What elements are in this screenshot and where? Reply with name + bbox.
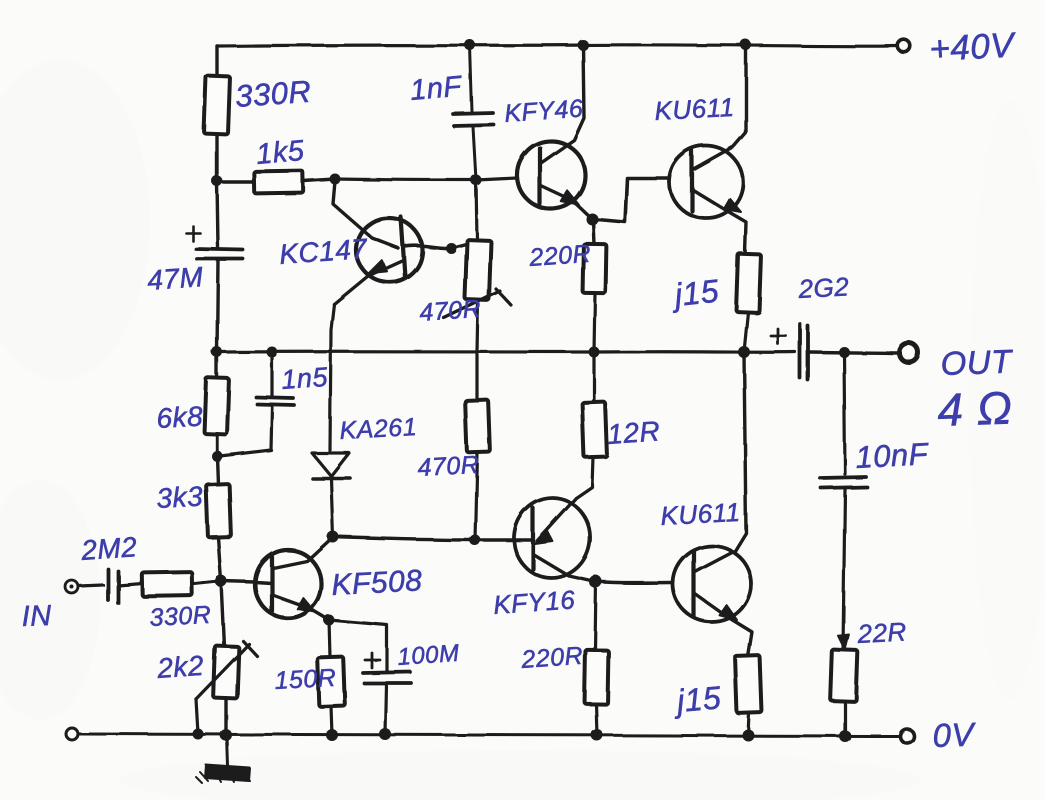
terminal 0V left (66, 728, 78, 740)
resistor 330R (input, horizontal) (142, 572, 192, 597)
wire: 470R trimmer bottom through mid rail to lower 470R (477, 300, 478, 401)
svg-text:10nF: 10nF (855, 436, 931, 475)
node: 150R on 0V rail (326, 729, 338, 741)
wire: 1nF top lead from +40V rail (470, 45, 472, 112)
svg-text:2k2: 2k2 (155, 650, 205, 684)
label 220R (upper) (527, 240, 592, 272)
label j15 (lower) (671, 679, 722, 719)
svg-text:100M: 100M (397, 640, 461, 671)
wire: node E to 470R bottom node to KFY16 base (333, 537, 533, 540)
wire: 220R lower to 0V rail (596, 704, 597, 735)
wire: y180 node down to 470R trimmer (476, 180, 477, 240)
wire: 6k8 to node C (215, 434, 218, 456)
transistor KF508 body (252, 547, 324, 620)
wire: 12R to KFY16 emitter (576, 457, 593, 498)
transistor KC147 body (353, 215, 425, 286)
transistor KF508 collector to node E (273, 537, 333, 568)
svg-text:j15: j15 (669, 273, 721, 314)
wire: 47M top lead (217, 181, 218, 247)
wire: left vertical from +40V rail to 330R (215, 46, 218, 76)
resistor 3k3 (206, 484, 231, 538)
node: output junction (j15 / KU611 lower collector / mid rail) (738, 346, 750, 358)
label +40V (928, 25, 1018, 69)
transistor KFY16 collector to node H (534, 555, 596, 582)
node G junction (KFY46 emitter / 220R / wire to KU611 base) (586, 213, 598, 225)
resistor 12R (582, 402, 607, 458)
label 10nF (855, 436, 931, 475)
transistor KU611 (lower) emitter with arrow (695, 594, 752, 657)
svg-text:330R: 330R (234, 74, 312, 114)
transistor KFY46 body (515, 139, 588, 212)
label 1k5 (255, 135, 306, 171)
label 330R (top resistor) (234, 74, 312, 114)
wire: mid output rail right section (2G2 to OUT terminal) (810, 352, 898, 353)
capacitor 2M2 plates (108, 569, 118, 603)
node H junction (KFY16 collector / 220R / KU611 base) (590, 576, 603, 589)
wire: node I to 150R (329, 620, 330, 657)
node: mid rail / 47M / 6k8 junction (212, 347, 223, 358)
node: 1nF on +40V rail (465, 40, 476, 51)
wire: 1k5 to node B (303, 179, 335, 181)
resistor 6k8 (204, 378, 229, 435)
transistor KU611 (upper) base bar (690, 151, 694, 211)
transistor KU611 (lower) base bar (692, 551, 696, 617)
wire: 47M bottom lead to mid rail (217, 260, 218, 352)
wire: IN terminal to 2M2 (79, 585, 103, 586)
capacitor 47M electrolytic plates (196, 249, 243, 259)
wire: 10nF to 22R with arrow (838, 489, 849, 650)
resistor j15 (upper) (736, 254, 761, 313)
svg-text:KU611: KU611 (654, 92, 736, 126)
label 3k3 (156, 481, 204, 514)
transistor KC147 base bar (401, 217, 405, 277)
ground symbol (196, 765, 250, 783)
wire: j15 lower to 0V rail (748, 713, 749, 735)
trimmer 2k2 wiper arrow (196, 641, 257, 699)
wire: collector node to 470R trimmer lead (451, 240, 477, 248)
resistor 1k5 (254, 171, 303, 194)
svg-text:22R: 22R (856, 616, 908, 649)
capacitor 1n5 plates (256, 397, 294, 405)
wire: 2k2 bottom to 0V rail (224, 698, 227, 735)
wire: 330R to node D (192, 581, 221, 584)
svg-text:1k5: 1k5 (255, 135, 306, 171)
wire: node A to 1k5 (217, 180, 254, 183)
label 4 ohm (937, 381, 1014, 436)
terminal +40V (898, 40, 911, 53)
wire: node G to KU611 base (step) (592, 178, 668, 222)
svg-text:6k8: 6k8 (156, 401, 204, 434)
node: 10nF branch junction on mid rail (839, 347, 850, 358)
node D junction (3k3 / 330R input / KF508 base / 2k2) (215, 575, 227, 587)
resistor 150R (317, 657, 345, 707)
node: 1nF / base wire junction (471, 175, 482, 186)
svg-text:KA261: KA261 (339, 413, 418, 445)
svg-text:3k3: 3k3 (156, 481, 204, 514)
wire: node G to 220R (593, 219, 594, 245)
svg-text:KU611: KU611 (660, 497, 742, 531)
wire: 0V bottom rail (78, 734, 898, 736)
svg-text:IN: IN (21, 600, 52, 633)
svg-text:47M: 47M (146, 261, 204, 296)
label 0V (932, 715, 977, 754)
label 22R (856, 616, 908, 649)
node: KFY46 collector on +40V rail (578, 40, 589, 51)
wire: 2M2 to 330R input resistor (118, 583, 142, 585)
svg-text:j15: j15 (671, 679, 722, 719)
node: j15 lower on 0V rail (742, 729, 754, 741)
svg-text:KFY46: KFY46 (503, 95, 584, 128)
node: 2k2 / ground junction on 0V rail (220, 729, 232, 741)
resistor 470R (lower) (465, 400, 490, 453)
node: 22R on 0V rail (839, 730, 851, 742)
label 6k8 (156, 401, 204, 434)
node: 100M on 0V rail (379, 728, 391, 740)
diode KA261 triangle (312, 453, 349, 476)
node: 2k2 wiper / 0V rail (193, 729, 204, 740)
transistor KC147 emitter with arrow (334, 260, 403, 304)
resistor 220R (upper) (583, 244, 607, 293)
node: 220R lower on 0V rail (591, 729, 603, 741)
wire: node C to 3k3 (217, 456, 218, 485)
terminal OUT (900, 344, 919, 363)
label KFY16 (492, 584, 576, 620)
node: KU611 collector on +40V rail (741, 40, 752, 51)
capacitor 2G2 polarity plus (771, 329, 786, 344)
node C junction (6k8 / 1n5 / 3k3) (212, 451, 223, 462)
svg-text:KC147: KC147 (278, 233, 369, 270)
wire: 100M to 0V rail (385, 684, 386, 734)
wire: 12R top lead from mid rail (592, 352, 595, 402)
transistor KFY46 base bar (538, 148, 542, 204)
capacitor 100M plates (363, 672, 411, 683)
resistor 330R (top) (204, 76, 230, 135)
label 1n5 (280, 362, 329, 395)
label j15 (upper) (669, 273, 721, 314)
label KA261 (339, 413, 418, 445)
svg-text:OUT: OUT (940, 342, 1015, 382)
svg-text:KFY16: KFY16 (492, 584, 576, 620)
resistor j15 (lower) (735, 656, 762, 714)
svg-text:KF508: KF508 (331, 564, 423, 602)
trimmer 470R wiper arrow (444, 289, 511, 318)
label 1nF (409, 70, 465, 107)
label KU611 (lower) (660, 497, 742, 531)
transistor KFY16 base bar (531, 508, 535, 569)
label 47M (146, 261, 204, 296)
resistor 220R (lower) (585, 650, 609, 704)
capacitor 2G2 plates (800, 324, 808, 380)
label 2M2 (79, 531, 138, 566)
label KC147 (278, 233, 369, 270)
transistor KFY46 emitter with arrow (541, 186, 592, 219)
label KU611 (upper) (654, 92, 736, 126)
svg-text:470R: 470R (417, 451, 480, 482)
wire: KA261 cathode to node E (331, 479, 333, 537)
transistor KU611 (upper) body (666, 143, 746, 221)
wire: 1n5 bottom plate to node C (220, 405, 272, 456)
svg-text:330R: 330R (149, 601, 212, 632)
capacitor 47M polarity plus (186, 226, 200, 241)
node: 1n5 top junction on mid rail (267, 347, 278, 358)
wire: node D down to 2k2 (221, 581, 224, 647)
wire: mid output rail left section (217, 350, 795, 354)
node: KC147 collector / 470R top (446, 243, 457, 254)
wire: mid rail down to 10nF (844, 352, 845, 474)
label KF508 (331, 564, 423, 602)
wire: node D to KF508 base (221, 581, 272, 583)
wire: 220R to mid rail (594, 293, 595, 352)
wire: node I to 100M top lead (329, 620, 387, 671)
wire: node B to 1nF node to KFY46 base (335, 178, 517, 180)
wire: node H down to 220R lower (595, 582, 596, 650)
transistor KF508 base bar (270, 557, 274, 611)
label 220R (lower) (519, 642, 584, 674)
label 470R (lower) (417, 451, 480, 482)
wire: 150R to 0V rail (331, 706, 332, 735)
svg-text:4 Ω: 4 Ω (937, 381, 1014, 436)
wire: mid rail to 1n5 top plate (270, 352, 273, 396)
node E junction (KA261 / KF508 collector / wire to KFY16) (327, 531, 339, 543)
svg-text:1n5: 1n5 (280, 362, 329, 395)
wire: ground stem (227, 736, 228, 766)
svg-text:220R: 220R (519, 642, 584, 674)
transistor KFY46 collector to +40V rail (541, 45, 584, 163)
node: 220R / 12R junction on mid rail (589, 347, 600, 358)
svg-text:220R: 220R (527, 240, 592, 272)
label IN (21, 600, 52, 633)
label 2G2 (797, 271, 850, 304)
wire: 3k3 to input node D (218, 537, 221, 581)
transistor KF508 emitter with arrow (273, 595, 329, 620)
capacitor 10nF plates (820, 477, 867, 488)
label 100M (397, 640, 461, 671)
node A junction (330R / 1k5 / 47M) (212, 176, 223, 187)
wire: +40V top rail (217, 45, 898, 46)
label OUT (940, 342, 1015, 382)
wire: 22R to 0V rail (843, 701, 846, 736)
label 330R (input) (149, 601, 212, 632)
wire: 470R lower to node F (475, 452, 477, 540)
wire: mid rail to 6k8 (215, 352, 218, 379)
diode KA261 cathode bar (312, 476, 350, 480)
wire: 2k2 wiper to 0V rail (196, 699, 198, 734)
transistor KU611 (upper) emitter with arrow (693, 190, 746, 254)
wire: KC147 emitter down to KA261 anode (330, 304, 334, 450)
label 470R (trimmer) (418, 295, 482, 327)
trimmer 470R body (upper) (465, 240, 491, 301)
transistor KU611 (lower) body (669, 542, 755, 626)
transistor KFY16 body (509, 493, 595, 583)
transistor KU611 (lower) collector to output node (695, 354, 746, 572)
trimmer 2k2 body (213, 646, 239, 699)
wire: node B down to KC147 base (333, 181, 398, 248)
terminal 0V (900, 729, 914, 743)
wire: 330R to node A (215, 135, 218, 181)
wire: j15 to mid rail output node (744, 312, 748, 352)
node B junction (1k5 / KC147 base / wire to KFY46) (330, 174, 341, 185)
svg-text:470R: 470R (418, 295, 482, 327)
svg-text:1nF: 1nF (409, 70, 465, 107)
svg-text:0V: 0V (932, 715, 977, 754)
transistor KFY16 emitter with arrow (from 12R) (535, 498, 576, 544)
label KFY46 (503, 95, 584, 128)
transistor KU611 (upper) collector to +40V rail (693, 45, 746, 170)
node I junction (KF508 emitter / 150R / 100M) (324, 615, 335, 626)
capacitor 100M polarity plus (365, 653, 380, 668)
svg-text:+40V: +40V (928, 25, 1018, 69)
resistor 22R (830, 650, 858, 702)
capacitor 1nF plates (453, 113, 494, 126)
label 150R (274, 664, 337, 695)
wire: 1nF bottom plate to y180 wire (473, 127, 476, 180)
label 2k2 (155, 650, 205, 684)
svg-text:2G2: 2G2 (797, 271, 850, 304)
svg-text:150R: 150R (274, 664, 337, 695)
wire: node H to KU611 lower base (596, 582, 672, 583)
label 12R (606, 415, 661, 450)
svg-text:12R: 12R (606, 415, 661, 450)
svg-text:2M2: 2M2 (79, 531, 138, 566)
node F junction (470R lower / KFY16 base wire) (470, 535, 481, 546)
terminal IN (66, 581, 79, 594)
transistor KC147 collector to 470R node (404, 245, 451, 248)
